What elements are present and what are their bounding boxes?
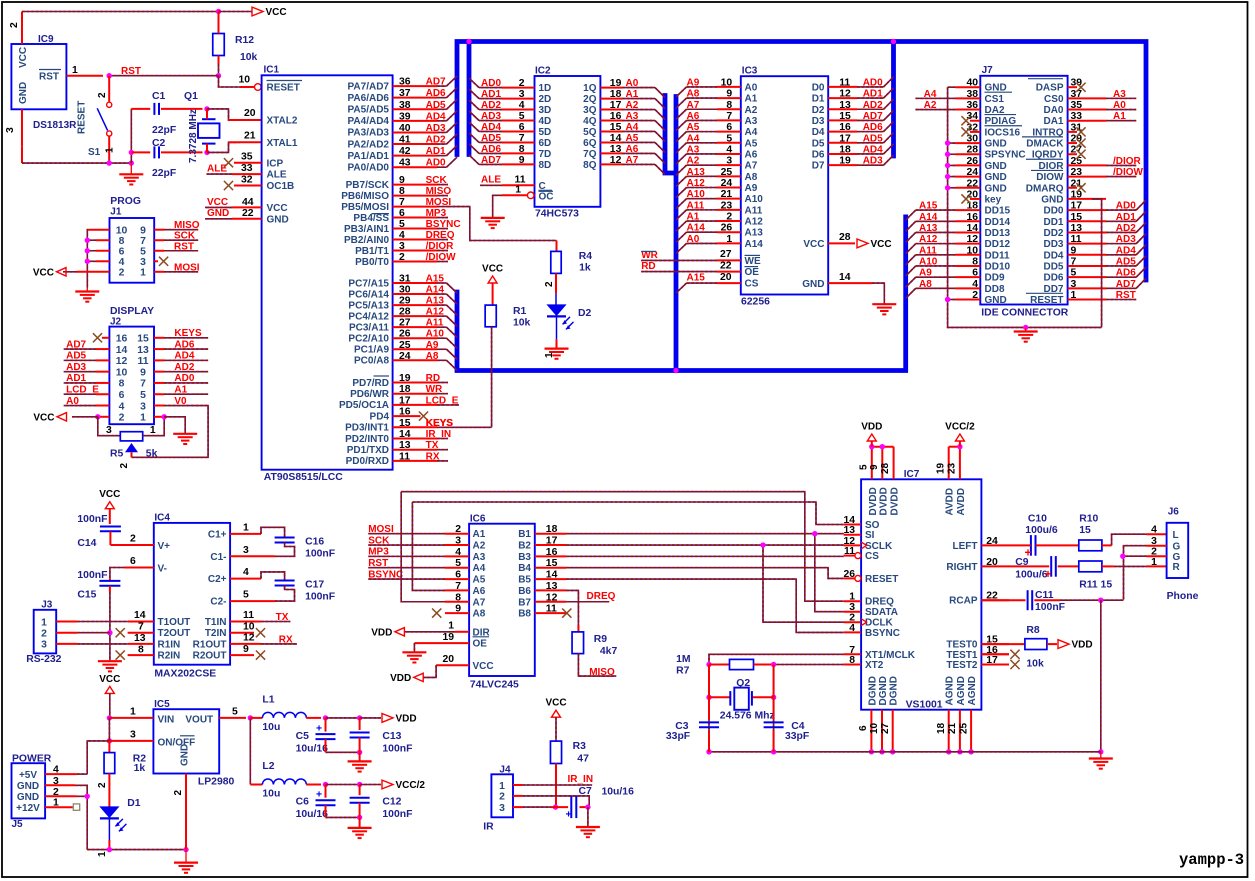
svg-text:17: 17	[839, 133, 851, 144]
svg-text:LCD_E: LCD_E	[426, 395, 459, 406]
svg-text:BSYNC: BSYNC	[426, 219, 461, 230]
svg-text:DD13: DD13	[985, 228, 1011, 239]
svg-text:C1-: C1-	[210, 552, 226, 563]
svg-text:11: 11	[546, 604, 557, 615]
svg-text:DD14: DD14	[985, 217, 1011, 228]
svg-text:VCC: VCC	[871, 239, 892, 250]
svg-text:15: 15	[399, 418, 411, 429]
svg-text:R2OUT: R2OUT	[193, 651, 227, 662]
svg-text:V-: V-	[158, 564, 167, 575]
svg-text:AD1: AD1	[66, 373, 86, 384]
svg-text:+: +	[316, 790, 322, 801]
svg-text:D1: D1	[127, 798, 141, 809]
svg-text:100nF: 100nF	[382, 809, 412, 820]
svg-text:GND: GND	[802, 279, 824, 290]
svg-text:J7: J7	[982, 65, 994, 76]
svg-text:14: 14	[399, 429, 411, 440]
svg-text:A11: A11	[426, 318, 444, 329]
svg-text:PA7/AD7: PA7/AD7	[348, 81, 390, 92]
svg-text:GND: GND	[1041, 194, 1063, 205]
svg-text:VCC: VCC	[99, 489, 120, 500]
svg-text:A4: A4	[687, 133, 700, 144]
svg-text:A13: A13	[426, 296, 445, 307]
svg-text:10: 10	[721, 77, 733, 88]
svg-text:23: 23	[721, 200, 733, 211]
svg-text:B3: B3	[518, 552, 531, 563]
svg-text:C15: C15	[77, 590, 96, 601]
svg-text:4: 4	[119, 257, 125, 268]
svg-text:PB2/AIN0: PB2/AIN0	[344, 235, 389, 246]
svg-text:GND: GND	[267, 214, 289, 225]
svg-text:A9: A9	[687, 77, 700, 88]
svg-text:A1: A1	[745, 94, 758, 105]
svg-text:A10: A10	[426, 329, 445, 340]
svg-text:4: 4	[519, 100, 525, 111]
svg-text:14: 14	[134, 610, 146, 621]
svg-text:IC4: IC4	[154, 513, 170, 524]
svg-text:43: 43	[399, 158, 411, 169]
svg-text:7: 7	[726, 111, 732, 122]
svg-text:4Q: 4Q	[583, 116, 597, 127]
svg-text:A3: A3	[473, 552, 486, 563]
svg-text:VCC: VCC	[545, 698, 566, 709]
svg-text:A0: A0	[745, 82, 758, 93]
svg-text:6Q: 6Q	[583, 138, 597, 149]
svg-text:14: 14	[839, 272, 851, 283]
svg-text:B1: B1	[518, 529, 531, 540]
svg-text:R12: R12	[235, 35, 254, 46]
svg-text:AD6: AD6	[426, 88, 446, 99]
svg-text:C14: C14	[77, 538, 96, 549]
svg-text:PC5/A13: PC5/A13	[348, 300, 389, 311]
svg-text:7: 7	[519, 133, 525, 144]
svg-text:16: 16	[839, 122, 851, 133]
svg-text:C5: C5	[296, 731, 310, 742]
svg-text:VDD: VDD	[396, 714, 417, 725]
svg-text:6D: 6D	[539, 138, 552, 149]
svg-text:PC2/A10: PC2/A10	[348, 334, 389, 345]
svg-text:AD3: AD3	[1116, 234, 1136, 245]
svg-text:PROG: PROG	[110, 196, 141, 207]
svg-text:AGND: AGND	[945, 676, 956, 705]
svg-text:100u/6: 100u/6	[1015, 569, 1048, 580]
svg-text:A2: A2	[473, 541, 486, 552]
svg-text:CS1: CS1	[985, 94, 1005, 105]
svg-text:40: 40	[399, 123, 411, 134]
svg-text:100nF: 100nF	[305, 592, 335, 603]
svg-text:B5: B5	[518, 575, 531, 586]
svg-text:A14: A14	[745, 239, 764, 250]
svg-text:A3: A3	[626, 111, 639, 122]
svg-text:4: 4	[1151, 525, 1157, 536]
svg-text:A6: A6	[626, 144, 639, 155]
svg-text:A9: A9	[426, 340, 439, 351]
svg-text:A6: A6	[473, 586, 486, 597]
svg-text:24: 24	[399, 351, 411, 362]
svg-text:2: 2	[519, 78, 525, 89]
svg-text:9: 9	[140, 367, 146, 378]
svg-text:GND: GND	[17, 781, 39, 792]
svg-text:PA3/AD3: PA3/AD3	[348, 128, 390, 139]
svg-text:15: 15	[610, 122, 622, 133]
svg-text:DD0: DD0	[1043, 206, 1063, 217]
svg-text:10: 10	[116, 226, 128, 237]
svg-text:2: 2	[130, 534, 136, 545]
svg-text:C9: C9	[1015, 557, 1029, 568]
svg-text:J2: J2	[110, 317, 122, 328]
svg-text:A9: A9	[745, 183, 758, 194]
svg-text:3: 3	[5, 127, 16, 133]
svg-text:AD7: AD7	[66, 339, 86, 350]
svg-text:AGND: AGND	[956, 676, 967, 705]
svg-text:AD6: AD6	[1116, 268, 1136, 279]
svg-text:A11: A11	[919, 245, 937, 256]
svg-text:15: 15	[1079, 525, 1091, 536]
svg-text:ALE: ALE	[207, 164, 227, 175]
svg-text:V+: V+	[158, 541, 171, 552]
svg-text:2: 2	[119, 268, 125, 279]
svg-text:AD6: AD6	[174, 339, 194, 350]
svg-text:RST: RST	[368, 558, 388, 569]
svg-text:AVDD: AVDD	[956, 488, 967, 516]
svg-text:1: 1	[105, 147, 116, 153]
svg-text:PC3/A11: PC3/A11	[349, 322, 389, 333]
svg-text:RST: RST	[39, 72, 59, 83]
svg-text:A11: A11	[687, 200, 705, 211]
svg-text:AD3: AD3	[481, 111, 501, 122]
svg-text:A5: A5	[687, 122, 700, 133]
svg-text:A8: A8	[473, 609, 486, 620]
svg-text:100nF: 100nF	[1035, 602, 1065, 613]
svg-text:2: 2	[97, 782, 108, 788]
svg-text:B8: B8	[518, 609, 531, 620]
svg-text:A2: A2	[687, 156, 700, 167]
svg-text:MISO: MISO	[589, 667, 615, 678]
svg-text:AD0: AD0	[863, 77, 883, 88]
svg-text:6: 6	[399, 208, 405, 219]
svg-text:10u/16: 10u/16	[602, 787, 635, 798]
svg-text:A8: A8	[919, 279, 932, 290]
svg-text:12: 12	[839, 89, 851, 100]
svg-text:10: 10	[869, 722, 880, 734]
svg-text:26: 26	[399, 329, 411, 340]
svg-text:20: 20	[244, 108, 256, 119]
svg-text:27: 27	[880, 722, 891, 734]
svg-text:26: 26	[721, 223, 733, 234]
svg-text:6: 6	[130, 556, 136, 567]
svg-text:7.3728 MHz: 7.3728 MHz	[188, 109, 199, 163]
svg-text:2: 2	[544, 281, 555, 287]
svg-text:100nF: 100nF	[305, 549, 335, 560]
svg-text:RD: RD	[641, 261, 655, 272]
svg-text:GND: GND	[17, 792, 39, 803]
svg-text:AD4: AD4	[1116, 245, 1136, 256]
svg-text:1: 1	[499, 781, 505, 792]
svg-text:A1: A1	[473, 529, 486, 540]
svg-text:A14: A14	[687, 223, 706, 234]
svg-text:C16: C16	[305, 537, 324, 548]
svg-text:24: 24	[721, 178, 733, 189]
svg-text:RST: RST	[1116, 290, 1136, 301]
svg-text:DGND: DGND	[889, 676, 900, 705]
svg-text:A12: A12	[745, 217, 764, 228]
svg-text:22pF: 22pF	[152, 168, 176, 179]
svg-text:30: 30	[399, 285, 411, 296]
svg-text:A6: A6	[687, 111, 700, 122]
svg-text:A15: A15	[919, 201, 938, 212]
svg-text:25: 25	[959, 722, 970, 734]
svg-text:AD3: AD3	[426, 123, 446, 134]
svg-text:VCC: VCC	[267, 203, 288, 214]
svg-text:AD2: AD2	[1116, 223, 1136, 234]
svg-text:VCC/2: VCC/2	[396, 780, 426, 791]
svg-text:1: 1	[515, 185, 521, 196]
svg-text:T2IN: T2IN	[205, 628, 227, 639]
svg-text:11: 11	[243, 610, 254, 621]
svg-text:8: 8	[399, 186, 405, 197]
svg-text:RD: RD	[426, 373, 440, 384]
svg-text:3: 3	[140, 401, 146, 412]
svg-text:B6: B6	[518, 586, 531, 597]
svg-text:Q2: Q2	[736, 678, 750, 689]
svg-text:TX: TX	[276, 612, 289, 623]
svg-text:3: 3	[140, 257, 146, 268]
svg-text:IOCS16: IOCS16	[985, 127, 1021, 138]
svg-text:C12: C12	[382, 797, 401, 808]
svg-text:PB5/MOSI: PB5/MOSI	[341, 202, 389, 213]
svg-text:PA1/AD1: PA1/AD1	[348, 151, 390, 162]
svg-text:11: 11	[839, 77, 850, 88]
svg-text:A5: A5	[473, 575, 486, 586]
svg-text:12: 12	[243, 633, 255, 644]
svg-text:IC9: IC9	[38, 34, 54, 45]
svg-text:A15: A15	[426, 274, 445, 285]
svg-text:IR: IR	[483, 822, 494, 833]
svg-text:A1: A1	[687, 212, 700, 223]
svg-text:100nF: 100nF	[77, 514, 107, 525]
svg-text:44: 44	[242, 197, 254, 208]
svg-text:BSYNC: BSYNC	[865, 628, 900, 639]
svg-text:1: 1	[140, 413, 146, 424]
svg-text:DGND: DGND	[867, 676, 878, 705]
svg-text:A7: A7	[745, 161, 758, 172]
svg-text:23: 23	[947, 462, 958, 474]
svg-text:DD4: DD4	[1043, 250, 1063, 261]
svg-text:1: 1	[544, 352, 555, 358]
svg-text:DD9: DD9	[985, 273, 1005, 284]
svg-text:VDD: VDD	[861, 422, 882, 433]
svg-text:TX: TX	[426, 440, 439, 451]
svg-text:+12V: +12V	[16, 803, 40, 814]
svg-text:DA0: DA0	[1043, 105, 1063, 116]
svg-text:DGND: DGND	[878, 676, 889, 705]
svg-text:J3: J3	[41, 600, 53, 611]
svg-text:42: 42	[399, 146, 411, 157]
svg-text:A0: A0	[66, 396, 79, 407]
svg-text:18: 18	[399, 384, 411, 395]
svg-text:OE: OE	[745, 267, 760, 278]
svg-text:2: 2	[173, 790, 184, 796]
svg-text:47: 47	[577, 754, 589, 765]
svg-text:D3: D3	[812, 116, 825, 127]
svg-text:AD2: AD2	[481, 100, 501, 111]
svg-text:PB3/AIN1: PB3/AIN1	[344, 224, 389, 235]
svg-text:A7: A7	[473, 597, 486, 608]
svg-text:17: 17	[399, 395, 411, 406]
svg-text:9: 9	[869, 464, 880, 470]
svg-text:A0: A0	[626, 78, 639, 89]
svg-text:LEFT: LEFT	[953, 541, 978, 552]
svg-text:VCC: VCC	[207, 197, 228, 208]
svg-text:7: 7	[140, 236, 146, 247]
svg-text:25: 25	[721, 167, 733, 178]
svg-text:G: G	[1173, 542, 1181, 553]
svg-text:VDD: VDD	[371, 627, 392, 638]
svg-text:A5: A5	[626, 133, 639, 144]
svg-text:1Q: 1Q	[583, 83, 597, 94]
svg-text:A13: A13	[687, 167, 706, 178]
svg-text:13: 13	[610, 144, 622, 155]
svg-text:3: 3	[399, 241, 405, 252]
svg-text:DVDD: DVDD	[868, 487, 879, 515]
svg-text:21: 21	[947, 722, 958, 734]
svg-text:OE: OE	[473, 639, 488, 650]
svg-text:/DIOR: /DIOR	[426, 241, 455, 252]
svg-text:C6: C6	[296, 797, 310, 808]
svg-text:RIGHT: RIGHT	[946, 562, 977, 573]
svg-text:DD15: DD15	[985, 206, 1011, 217]
svg-text:8: 8	[119, 379, 125, 390]
svg-text:AVDD: AVDD	[945, 488, 956, 516]
svg-text:A6: A6	[745, 149, 758, 160]
svg-text:100nF: 100nF	[382, 744, 412, 755]
svg-text:DMARQ: DMARQ	[1026, 183, 1064, 194]
svg-text:C2: C2	[152, 138, 166, 149]
svg-text:MOSI: MOSI	[174, 262, 200, 273]
svg-text:9: 9	[243, 644, 249, 655]
svg-text:A2: A2	[745, 105, 758, 116]
svg-text:12: 12	[610, 155, 622, 166]
svg-text:AD4: AD4	[426, 111, 446, 122]
svg-text:4D: 4D	[539, 116, 552, 127]
svg-text:WR: WR	[426, 384, 443, 395]
svg-text:1: 1	[130, 707, 136, 718]
svg-text:PC4/A12: PC4/A12	[348, 311, 389, 322]
svg-text:RESET: RESET	[77, 101, 88, 134]
svg-text:39: 39	[399, 111, 411, 122]
svg-text:A0: A0	[1113, 100, 1126, 111]
svg-text:3: 3	[130, 730, 136, 741]
svg-text:12: 12	[546, 592, 558, 603]
svg-text:J4: J4	[499, 765, 511, 776]
svg-text:D7: D7	[812, 161, 825, 172]
svg-text:A13: A13	[745, 228, 764, 239]
svg-text:PC7/A15: PC7/A15	[348, 278, 389, 289]
svg-text:VCC/2: VCC/2	[945, 422, 975, 433]
svg-text:R5: R5	[110, 448, 124, 459]
svg-text:PB7/SCK: PB7/SCK	[346, 180, 390, 191]
svg-text:C13: C13	[382, 731, 401, 742]
svg-text:15: 15	[137, 334, 149, 345]
svg-text:7Q: 7Q	[583, 149, 597, 160]
svg-text:A10: A10	[687, 189, 706, 200]
svg-text:A1: A1	[626, 89, 639, 100]
svg-text:10k: 10k	[1026, 659, 1044, 670]
svg-text:3: 3	[41, 640, 47, 651]
svg-text:16: 16	[116, 334, 128, 345]
svg-text:10k: 10k	[240, 52, 258, 63]
svg-text:21: 21	[721, 189, 733, 200]
svg-text:R2IN: R2IN	[158, 651, 181, 662]
svg-text:CS0: CS0	[1044, 94, 1064, 105]
svg-text:3: 3	[499, 803, 505, 814]
svg-text:OC: OC	[539, 191, 554, 202]
svg-text:D0: D0	[812, 82, 825, 93]
svg-text:AD7: AD7	[481, 155, 501, 166]
svg-text:VS1001: VS1001	[906, 700, 943, 711]
svg-text:9: 9	[519, 155, 525, 166]
svg-text:18: 18	[936, 722, 947, 734]
svg-text:C1: C1	[152, 91, 166, 102]
svg-text:DREQ: DREQ	[865, 597, 894, 608]
svg-text:GND: GND	[18, 82, 29, 104]
svg-text:32: 32	[241, 174, 253, 185]
svg-text:4: 4	[399, 230, 405, 241]
svg-text:A7: A7	[687, 100, 700, 111]
svg-text:VCC: VCC	[33, 412, 54, 423]
svg-text:VCC: VCC	[803, 239, 824, 250]
svg-text:LP2980: LP2980	[198, 777, 235, 788]
svg-text:10: 10	[116, 367, 128, 378]
svg-text:3: 3	[726, 156, 732, 167]
svg-text:3: 3	[519, 89, 525, 100]
svg-text:/DIOW: /DIOW	[426, 252, 457, 263]
svg-text:13: 13	[839, 100, 851, 111]
svg-text:V0: V0	[174, 396, 187, 407]
svg-text:2: 2	[499, 792, 505, 803]
svg-text:VOUT: VOUT	[185, 715, 213, 726]
svg-text:10u/16: 10u/16	[296, 809, 329, 820]
svg-text:A12: A12	[687, 178, 706, 189]
svg-text:9: 9	[140, 226, 146, 237]
svg-text:GND: GND	[985, 183, 1007, 194]
svg-text:PD3/INT1: PD3/INT1	[345, 423, 389, 434]
svg-text:AD2: AD2	[174, 362, 194, 373]
svg-text:1: 1	[726, 234, 732, 245]
svg-text:AGND: AGND	[967, 676, 978, 705]
svg-text:GND: GND	[985, 172, 1007, 183]
svg-text:AT90S8515/LCC: AT90S8515/LCC	[264, 472, 343, 483]
svg-text:10u: 10u	[262, 789, 280, 800]
svg-text:PB6/MISO: PB6/MISO	[341, 191, 389, 202]
svg-text:T1OUT: T1OUT	[158, 617, 191, 628]
svg-text:A14: A14	[426, 285, 445, 296]
svg-text:yampp-3: yampp-3	[1179, 851, 1244, 869]
svg-text:D2: D2	[812, 105, 825, 116]
svg-text:SCK: SCK	[426, 175, 448, 186]
svg-text:14: 14	[546, 570, 558, 581]
svg-text:PA2/AD2: PA2/AD2	[348, 139, 390, 150]
svg-text:VDD: VDD	[390, 673, 411, 684]
svg-text:AD4: AD4	[174, 351, 194, 362]
svg-text:2Q: 2Q	[583, 94, 597, 105]
svg-text:74LVC245: 74LVC245	[470, 680, 519, 691]
svg-text:IC1: IC1	[264, 65, 280, 76]
svg-text:PD1/TXD: PD1/TXD	[347, 445, 389, 456]
svg-text:10k: 10k	[513, 318, 531, 329]
svg-text:28: 28	[880, 462, 891, 474]
svg-text:A4: A4	[473, 563, 486, 574]
